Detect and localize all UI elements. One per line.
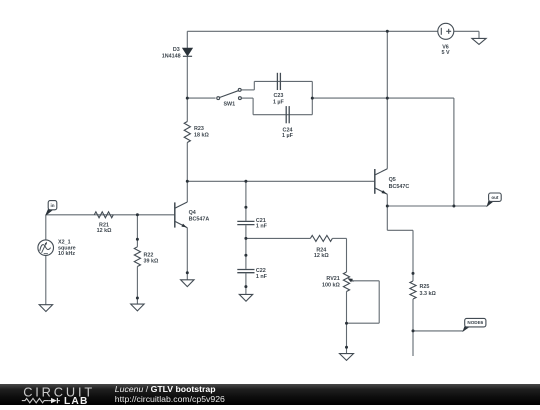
svg-text:LAB: LAB [64,396,89,405]
svg-text:SW1: SW1 [223,102,235,108]
svg-text:D3: D3 [173,47,180,53]
svg-text:BC547A: BC547A [189,216,210,222]
svg-text:NODE6: NODE6 [467,320,483,325]
svg-text:100 kΩ: 100 kΩ [322,282,340,288]
svg-text:1N4148: 1N4148 [162,53,181,59]
svg-text:Lucenu / GTLV bootstrap: Lucenu / GTLV bootstrap [115,384,216,394]
svg-text:R25: R25 [420,284,430,290]
svg-text:39 kΩ: 39 kΩ [144,258,159,264]
svg-text:R23: R23 [194,126,204,132]
svg-text:3.3 kΩ: 3.3 kΩ [420,291,437,297]
svg-text:1 nF: 1 nF [256,274,268,280]
svg-text:X2_1: X2_1 [58,239,71,245]
svg-text:C23: C23 [273,93,283,99]
svg-text:http://circuitlab.com/cp5v926: http://circuitlab.com/cp5v926 [115,394,225,404]
svg-text:Q5: Q5 [389,177,396,183]
svg-text:Q4: Q4 [189,210,196,216]
svg-text:1 µF: 1 µF [273,100,285,106]
svg-text:5 V: 5 V [441,50,449,56]
svg-text:out: out [491,195,499,200]
svg-text:RV21: RV21 [326,276,339,282]
svg-text:in: in [50,203,54,208]
svg-text:BC547C: BC547C [389,184,410,190]
svg-text:12 kΩ: 12 kΩ [314,253,329,259]
svg-text:1 µF: 1 µF [282,133,294,139]
svg-text:12 kΩ: 12 kΩ [97,228,112,234]
svg-text:10 kHz: 10 kHz [58,251,75,257]
svg-text:1 nF: 1 nF [256,224,268,230]
svg-text:18 kΩ: 18 kΩ [194,133,209,139]
